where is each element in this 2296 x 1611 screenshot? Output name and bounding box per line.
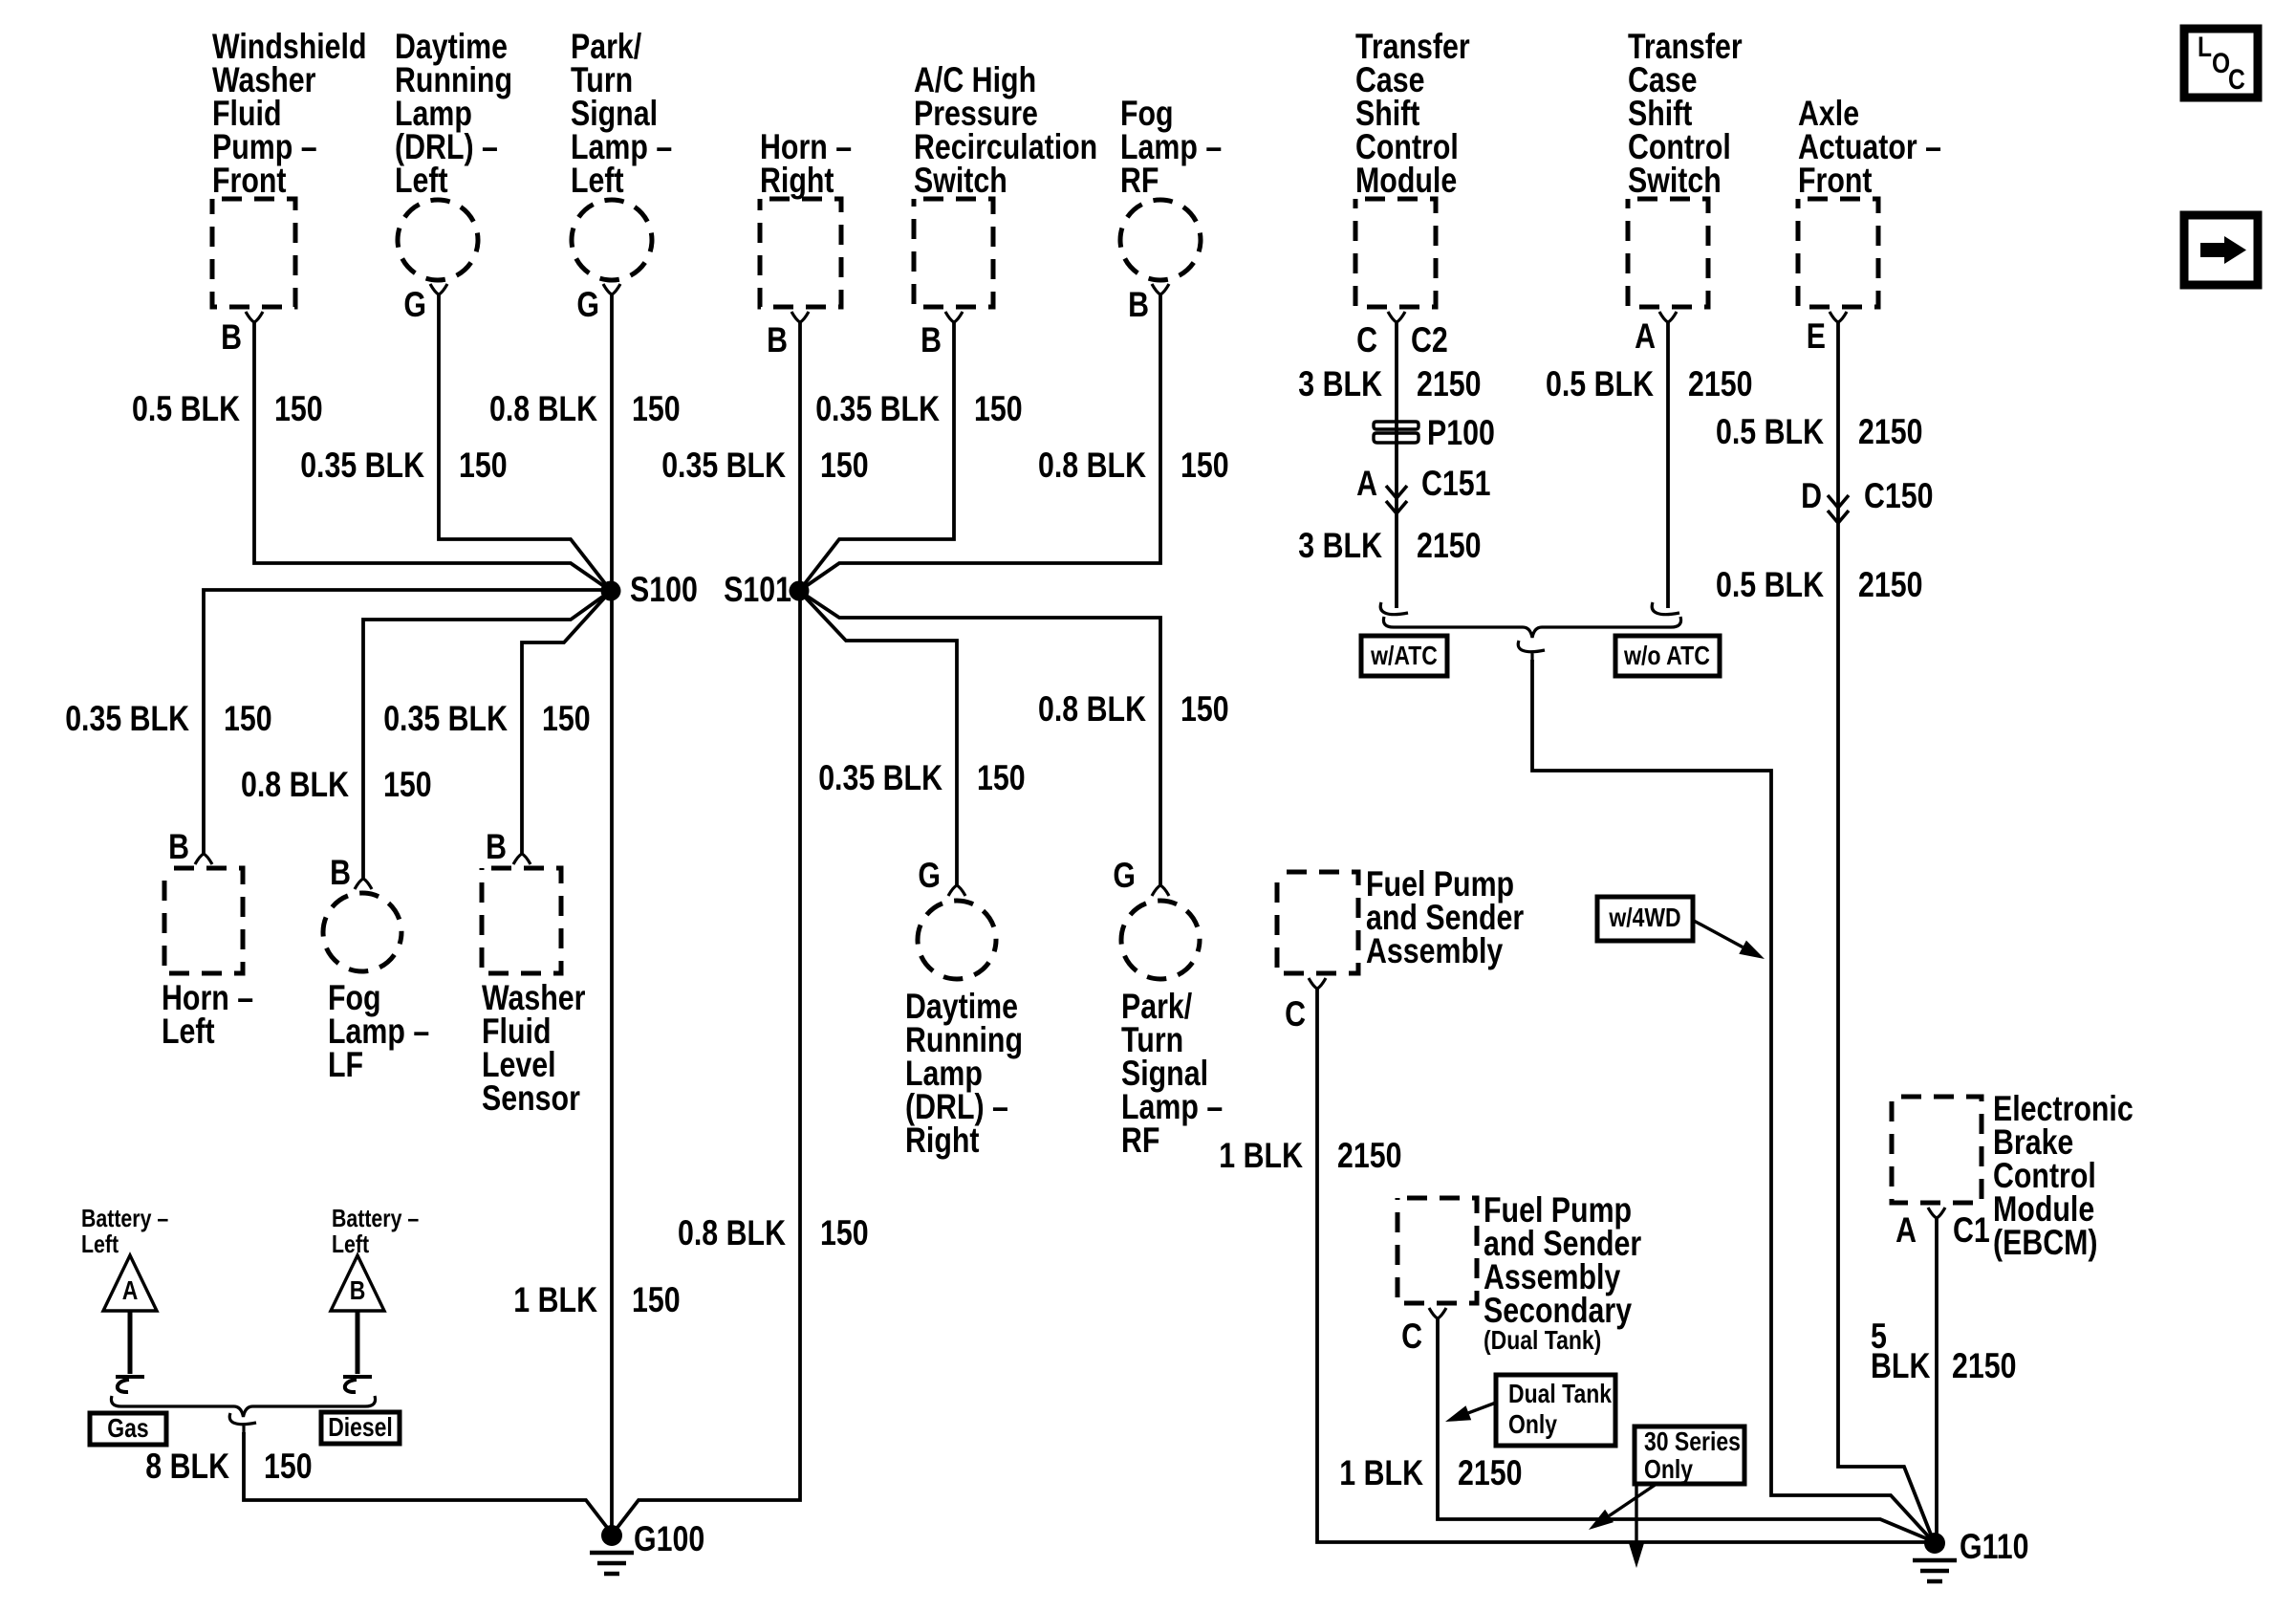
wire: 0.8 BLK 150 from Park/Turn Lamp Left pin G through S100 down to G100: [610, 294, 614, 1526]
wire: 0.35 BLK 150 from Horn Right pin B through splice S101 down then left to G100: [613, 322, 800, 1534]
svg-text:Battery –: Battery –: [81, 1204, 168, 1232]
connector P100 pass-through: [1374, 413, 1495, 452]
svg-text:0.5 BLK: 0.5 BLK: [1546, 364, 1654, 403]
svg-text:LF: LF: [328, 1045, 363, 1084]
hook at TC module wire end: [1380, 602, 1408, 615]
component label: Windshield Washer Fluid Pump - Front: [212, 27, 367, 200]
value label: 0.5 BLK 2150 below C150: [1716, 565, 1923, 604]
svg-text:0.5 BLK: 0.5 BLK: [1716, 412, 1824, 451]
svg-text:150: 150: [977, 758, 1026, 797]
svg-text:w/ATC: w/ATC: [1370, 641, 1438, 670]
svg-text:150: 150: [1180, 689, 1229, 729]
svg-text:Only: Only: [1644, 1454, 1693, 1484]
component: Park/Turn Signal Lamp - Left (dashed circle): [572, 200, 652, 280]
svg-text:150: 150: [974, 389, 1023, 428]
wire: battery A lead: [128, 1311, 133, 1374]
value label: 0.8 BLK 150: [1038, 689, 1229, 729]
svg-text:150: 150: [274, 389, 323, 428]
svg-text:150: 150: [383, 765, 432, 804]
svg-text:B: B: [921, 320, 942, 359]
svg-text:1 BLK: 1 BLK: [1219, 1136, 1303, 1175]
value label: 0.8 BLK 150 on S101 ground wire: [678, 1213, 869, 1252]
in-line connector C150 pin D: [1801, 476, 1933, 523]
svg-text:Left: Left: [332, 1230, 369, 1258]
pin G of DRL-Left: [403, 284, 447, 324]
svg-text:Only: Only: [1508, 1409, 1557, 1439]
brace joining ATC options: [1383, 617, 1680, 638]
component label: Fog Lamp - LF: [328, 978, 429, 1084]
value label: 0.35 BLK 150: [661, 446, 868, 485]
component label: Transfer Case Shift Control Switch: [1628, 27, 1743, 200]
svg-text:1 BLK: 1 BLK: [1339, 1453, 1423, 1492]
svg-text:0.8 BLK: 0.8 BLK: [678, 1213, 786, 1252]
pin B of washer pump: [221, 312, 263, 357]
value label: 0.5 BLK 2150: [1716, 412, 1923, 451]
value label: 8 BLK 150: [145, 1447, 312, 1486]
svg-text:B: B: [767, 320, 788, 359]
svg-text:Gas: Gas: [107, 1413, 148, 1443]
svg-text:Left: Left: [395, 161, 448, 200]
wire: 0.5 BLK 150 from washer pump pin B to splice S100: [254, 322, 611, 591]
wire: 0.35 BLK 150 from splice S100 to Horn-Left: [204, 590, 611, 854]
pin B of Fog Lamp LF: [330, 853, 372, 892]
tag box: 30 Series Only with arrows: [1589, 1426, 1744, 1568]
svg-text:C: C: [1285, 994, 1306, 1034]
svg-text:L: L: [2198, 32, 2212, 63]
component: Park/Turn Signal Lamp - RF (dashed circle): [1121, 901, 1200, 979]
value label: 3 BLK 2150: [1298, 364, 1481, 403]
svg-text:B: B: [221, 317, 242, 357]
pin C of secondary fuel pump: [1401, 1308, 1446, 1356]
tag box: w/4WD with arrow: [1597, 897, 1765, 959]
value label: 0.5 BLK 150: [132, 389, 323, 428]
svg-text:G100: G100: [634, 1519, 704, 1558]
splice S101: [724, 570, 809, 609]
wire: battery B lead: [356, 1311, 360, 1374]
svg-text:Diesel: Diesel: [328, 1412, 393, 1442]
svg-text:S101: S101: [724, 570, 791, 609]
svg-text:Sensor: Sensor: [482, 1078, 580, 1118]
svg-text:C1: C1: [1953, 1210, 1990, 1250]
terminal hook battery B: [343, 1377, 372, 1392]
svg-text:B: B: [486, 827, 507, 866]
svg-text:A: A: [1356, 464, 1377, 503]
pin A / C1 of EBCM: [1895, 1208, 1990, 1250]
pin A of TC shift control switch: [1635, 312, 1677, 356]
value label: 0.5 BLK 2150: [1546, 364, 1753, 403]
component: Daytime Running Lamp DRL-Left (dashed circle): [398, 200, 478, 280]
svg-text:150: 150: [1180, 446, 1229, 485]
component: Axle Actuator - Front (dashed box): [1798, 199, 1878, 307]
component label: Transfer Case Shift Control Module: [1355, 27, 1470, 200]
svg-text:Assembly: Assembly: [1366, 931, 1504, 970]
component label: Park/Turn Signal Lamp - RF: [1121, 987, 1223, 1160]
legend: LOC box: [2184, 29, 2258, 98]
svg-text:0.5 BLK: 0.5 BLK: [132, 389, 240, 428]
svg-text:B: B: [168, 827, 189, 866]
svg-text:G110: G110: [1960, 1527, 2029, 1566]
svg-text:P100: P100: [1427, 413, 1495, 452]
wire: 1 BLK 2150 from secondary fuel pump to ground G110: [1438, 1318, 1933, 1541]
wire: 3 BLK 2150 from TC module to w/ATC junction: [1395, 322, 1398, 608]
pin B of Fog Lamp RF: [1128, 284, 1169, 324]
wire: 0.35 BLK 150 from DRL-Left pin G to splice S100: [439, 294, 611, 591]
svg-text:150: 150: [632, 389, 681, 428]
tag box: w/ATC: [1361, 636, 1447, 676]
svg-text:w/4WD: w/4WD: [1609, 903, 1681, 932]
component label: Horn - Right: [760, 127, 852, 200]
legend: next-page arrow box: [2184, 215, 2258, 285]
component label: Horn - Left: [162, 978, 253, 1051]
svg-text:Secondary: Secondary: [1484, 1291, 1632, 1330]
value label: 0.8 BLK 150: [489, 389, 681, 428]
terminal hook battery A: [116, 1377, 144, 1392]
pin B of Horn Left: [168, 827, 212, 866]
component label: Park/Turn Signal Lamp - Left: [571, 27, 672, 200]
svg-text:2150: 2150: [1858, 565, 1923, 604]
value label: 1 BLK 150 on S100 ground wire: [513, 1280, 680, 1319]
svg-text:G: G: [918, 856, 941, 895]
component: Washer Fluid Level Sensor (dashed box): [482, 868, 561, 973]
svg-text:2150: 2150: [1458, 1453, 1523, 1492]
svg-text:150: 150: [542, 699, 591, 738]
svg-text:B: B: [330, 853, 351, 892]
brace: gas/diesel alternative join: [111, 1396, 375, 1417]
svg-text:150: 150: [632, 1280, 681, 1319]
svg-text:(Dual Tank): (Dual Tank): [1484, 1325, 1601, 1355]
value label: 0.35 BLK 150: [815, 389, 1022, 428]
wire: ground wire from ATC junction to ground G110 (w/4WD path): [1532, 660, 1933, 1541]
svg-text:G: G: [403, 285, 426, 324]
hook below ATC brace: [1518, 641, 1545, 662]
value label: 3 BLK 2150 below C151: [1298, 526, 1481, 565]
svg-text:C: C: [1401, 1317, 1422, 1356]
component label: Daytime Running Lamp (DRL) - Right: [905, 987, 1023, 1160]
svg-text:0.8 BLK: 0.8 BLK: [241, 765, 349, 804]
pin G of DRL Right: [918, 856, 965, 896]
svg-text:150: 150: [224, 699, 272, 738]
svg-text:Switch: Switch: [1628, 161, 1722, 200]
svg-text:Right: Right: [760, 161, 834, 200]
component: Fog Lamp - LF (dashed circle): [323, 893, 401, 971]
pin G of Park/Turn Lamp Left: [576, 284, 620, 324]
svg-text:150: 150: [820, 446, 869, 485]
svg-text:2150: 2150: [1417, 526, 1482, 565]
component label: Battery - Left (B): [332, 1204, 419, 1258]
pin B of Horn Right: [767, 312, 809, 359]
svg-text:0.35 BLK: 0.35 BLK: [661, 446, 786, 485]
svg-text:3 BLK: 3 BLK: [1298, 526, 1382, 565]
splice S100: [601, 570, 698, 609]
tag box: w/o ATC: [1615, 636, 1720, 676]
svg-text:Front: Front: [1798, 161, 1873, 200]
svg-text:0.35 BLK: 0.35 BLK: [300, 446, 424, 485]
pin B of A/C switch: [921, 312, 963, 359]
svg-text:w/o ATC: w/o ATC: [1623, 641, 1710, 670]
svg-text:1 BLK: 1 BLK: [513, 1280, 597, 1319]
component: Electronic Brake Control Module EBCM (dashed box): [1892, 1097, 1982, 1203]
svg-text:S100: S100: [630, 570, 698, 609]
pin E of axle actuator: [1807, 312, 1847, 356]
component label: Fuel Pump and Sender Assembly: [1366, 864, 1524, 970]
pin G of Park/Turn Lamp RF: [1113, 856, 1169, 896]
wire: 0.8 BLK 150 from Fog Lamp RF pin B to splice S101: [799, 294, 1160, 591]
in-line connector C151 pin A: [1356, 464, 1490, 513]
svg-text:0.35 BLK: 0.35 BLK: [818, 758, 942, 797]
component label: Battery - Left (A): [81, 1204, 168, 1258]
svg-text:G: G: [576, 285, 599, 324]
svg-text:0.35 BLK: 0.35 BLK: [383, 699, 508, 738]
svg-text:0.5 BLK: 0.5 BLK: [1716, 565, 1824, 604]
component: Transfer Case Shift Control Module (dashed box): [1355, 199, 1436, 307]
svg-text:0.35 BLK: 0.35 BLK: [815, 389, 940, 428]
svg-text:2150: 2150: [1952, 1346, 2017, 1385]
component label: Fog Lamp - RF: [1120, 94, 1222, 200]
svg-text:C2: C2: [1411, 320, 1448, 359]
svg-text:0.8 BLK: 0.8 BLK: [1038, 446, 1146, 485]
wire: 0.8 BLK 150 from splice S100 to Fog Lamp LF: [363, 591, 611, 879]
svg-text:Front: Front: [212, 161, 287, 200]
component label: Axle Actuator - Front: [1798, 94, 1941, 200]
value label: 1 BLK 2150: [1219, 1136, 1401, 1175]
wire: 0.5 BLK 2150 from TC switch to w/o ATC junction: [1666, 322, 1670, 608]
svg-text:0.35 BLK: 0.35 BLK: [65, 699, 189, 738]
component: Fog Lamp - RF (dashed circle): [1120, 200, 1201, 280]
power symbol: battery feed triangle A: [103, 1255, 157, 1311]
svg-text:3 BLK: 3 BLK: [1298, 364, 1382, 403]
component: Horn - Left (dashed box): [164, 868, 243, 973]
component: A/C High Pressure Recirculation Switch (dashed box): [914, 199, 993, 307]
component: Fuel Pump and Sender Assembly Secondary (dashed box): [1397, 1198, 1477, 1303]
component: Horn - Right (dashed box): [760, 199, 841, 307]
value label: 0.35 BLK 150: [383, 699, 590, 738]
hook at TC switch wire end: [1652, 602, 1679, 615]
value label: 0.8 BLK 150: [241, 765, 432, 804]
tag box: Gas: [90, 1413, 166, 1445]
svg-text:C151: C151: [1421, 464, 1491, 503]
svg-text:0.8 BLK: 0.8 BLK: [489, 389, 597, 428]
value label: 5 BLK 2150: [1871, 1317, 2017, 1385]
wire: 0.5 BLK 2150 from axle actuator to ground G110: [1838, 322, 1933, 1539]
wire: 1 BLK 2150 from fuel pump assembly to ground G110: [1317, 989, 1927, 1542]
svg-text:D: D: [1801, 476, 1822, 515]
pin C / C2 of TC shift control module: [1356, 312, 1448, 359]
value label: 0.35 BLK 150: [65, 699, 271, 738]
svg-text:150: 150: [820, 1213, 869, 1252]
component label: Washer Fluid Level Sensor: [482, 978, 586, 1118]
svg-text:Switch: Switch: [914, 161, 1007, 200]
value label: 0.35 BLK 150: [300, 446, 507, 485]
component: Transfer Case Shift Control Switch (dashed box): [1628, 199, 1708, 307]
wire: 0.8 BLK 150 from splice S101 to Park/Turn Signal Lamp RF: [799, 591, 1160, 885]
svg-text:B: B: [1128, 285, 1149, 324]
component label: Electronic Brake Control Module (EBCM): [1993, 1089, 2134, 1262]
svg-text:Left: Left: [81, 1230, 119, 1258]
component: Windshield Washer Fluid Pump - Front (dashed box): [212, 199, 295, 307]
value label: 0.35 BLK 150: [818, 758, 1025, 797]
svg-text:2150: 2150: [1688, 364, 1753, 403]
svg-text:BLK: BLK: [1871, 1346, 1931, 1385]
svg-text:(EBCM): (EBCM): [1993, 1223, 2098, 1262]
wire: 8 BLK 150 from batteries to ground G100: [244, 1432, 612, 1534]
power symbol: battery feed triangle B: [331, 1255, 384, 1311]
svg-text:2150: 2150: [1417, 364, 1482, 403]
pin C of fuel pump assembly: [1285, 978, 1326, 1034]
tag box: Diesel: [321, 1412, 400, 1444]
tag box: Dual Tank Only with arrow: [1445, 1375, 1615, 1446]
svg-text:C: C: [2228, 64, 2245, 96]
svg-text:2150: 2150: [1337, 1136, 1402, 1175]
svg-text:2150: 2150: [1858, 412, 1923, 451]
svg-text:Dual Tank: Dual Tank: [1508, 1379, 1612, 1408]
component label: A/C High Pressure Recirculation Switch: [914, 60, 1097, 200]
component label: Fuel Pump and Sender Assembly Secondary (Dual Tank): [1484, 1190, 1641, 1355]
wire: 0.35 BLK 150 from A/C switch pin B to splice S101: [799, 322, 954, 591]
component: Fuel Pump and Sender Assembly (dashed box): [1277, 872, 1358, 973]
svg-text:0.8 BLK: 0.8 BLK: [1038, 689, 1146, 729]
svg-text:B: B: [350, 1275, 366, 1305]
svg-text:RF: RF: [1120, 161, 1159, 200]
svg-text:G: G: [1113, 856, 1136, 895]
ground G110: [1913, 1527, 2029, 1581]
pin B of Washer Fluid Level Sensor: [486, 827, 531, 866]
svg-text:30 Series: 30 Series: [1644, 1426, 1741, 1456]
svg-text:C: C: [1356, 320, 1377, 359]
svg-text:A: A: [122, 1275, 139, 1305]
component: Daytime Running Lamp DRL-Right (dashed circle): [918, 901, 996, 979]
component label: Daytime Running Lamp (DRL) - Left: [395, 27, 512, 200]
svg-text:A: A: [1895, 1210, 1917, 1250]
svg-text:E: E: [1807, 316, 1826, 356]
svg-text:Left: Left: [571, 161, 624, 200]
wire: 5 BLK 2150 from EBCM pin A to ground G110: [1935, 1218, 1939, 1534]
value label: 1 BLK 2150: [1339, 1453, 1522, 1492]
svg-text:150: 150: [264, 1447, 313, 1486]
hook below battery brace: [229, 1413, 256, 1434]
svg-text:C150: C150: [1864, 476, 1934, 515]
wire: 0.35 BLK 150 from splice S101 to DRL-Right: [799, 591, 957, 885]
svg-text:Right: Right: [905, 1121, 980, 1160]
value label: 0.8 BLK 150: [1038, 446, 1229, 485]
ground G100: [590, 1519, 704, 1574]
svg-text:150: 150: [459, 446, 508, 485]
svg-text:RF: RF: [1121, 1121, 1159, 1160]
svg-text:Module: Module: [1355, 161, 1457, 200]
svg-text:Left: Left: [162, 1012, 215, 1051]
svg-text:8 BLK: 8 BLK: [145, 1447, 229, 1486]
wire: 0.35 BLK 150 from splice S100 to Washer Fluid Level Sensor: [522, 591, 611, 854]
svg-text:A: A: [1635, 316, 1656, 356]
svg-text:Battery –: Battery –: [332, 1204, 419, 1232]
